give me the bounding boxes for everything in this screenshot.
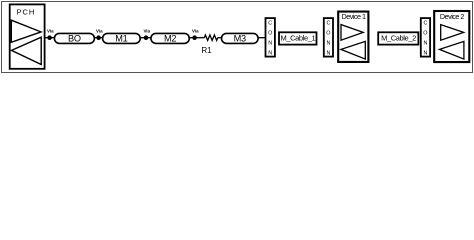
- svg-text:O: O: [326, 31, 330, 37]
- svg-text:Device 1: Device 1: [342, 12, 366, 21]
- block Device 1: [338, 12, 368, 62]
- cable M_Cable_1: [279, 32, 317, 44]
- block PCH: [10, 4, 45, 68]
- svg-text:Via: Via: [192, 28, 199, 33]
- svg-text:C: C: [268, 21, 272, 27]
- svg-text:N: N: [326, 41, 330, 47]
- resistor R1: [204, 35, 217, 40]
- svg-text:N: N: [423, 51, 427, 57]
- transmission segment M2: [151, 33, 189, 43]
- wire M1 to M2: [140, 37, 151, 39]
- svg-text:Via: Via: [96, 28, 103, 33]
- svg-text:O: O: [268, 31, 272, 37]
- svg-text:N: N: [423, 41, 427, 47]
- svg-text:R1: R1: [201, 46, 212, 55]
- svg-text:O: O: [423, 31, 427, 37]
- resistor R1 value label: [201, 46, 212, 55]
- svg-text:BO: BO: [68, 33, 81, 43]
- via 4: [192, 35, 197, 40]
- svg-text:M_Cable_1: M_Cable_1: [281, 34, 316, 43]
- wire PCH to BO: [45, 37, 55, 39]
- wire R1 to M3: [218, 37, 222, 39]
- svg-text:N: N: [268, 51, 272, 57]
- wire BO to M1: [94, 37, 102, 39]
- svg-text:Device 2: Device 2: [440, 12, 464, 21]
- connector CONN 1: [266, 18, 275, 57]
- svg-text:M3: M3: [234, 33, 246, 43]
- transmission segment M1: [103, 33, 141, 43]
- via 2: [96, 35, 101, 40]
- via 2 label: [96, 28, 103, 33]
- svg-text:C: C: [326, 21, 330, 27]
- svg-text:Via: Via: [47, 28, 54, 33]
- via 4 label: [192, 28, 199, 33]
- transmission segment M3: [222, 33, 259, 43]
- cable M_Cable_2: [378, 32, 418, 44]
- svg-text:Via: Via: [143, 28, 150, 33]
- block Device 2: [434, 11, 469, 62]
- svg-text:PCH: PCH: [17, 8, 36, 17]
- svg-text:M1: M1: [115, 33, 127, 43]
- svg-text:N: N: [326, 51, 330, 57]
- wire M3 to connector 1: [258, 37, 265, 39]
- svg-text:C: C: [423, 21, 427, 27]
- transmission segment BO: [54, 33, 94, 43]
- via 3 label: [143, 28, 150, 33]
- svg-text:N: N: [268, 41, 272, 47]
- via 1: [47, 35, 52, 40]
- via 3: [144, 35, 149, 40]
- svg-text:M_Cable_2: M_Cable_2: [381, 34, 416, 43]
- connector CONN 3: [421, 18, 430, 57]
- wire M2 to R1: [189, 37, 204, 39]
- via 1 label: [47, 28, 54, 33]
- svg-text:M2: M2: [164, 33, 176, 43]
- connector CONN 2: [324, 18, 333, 57]
